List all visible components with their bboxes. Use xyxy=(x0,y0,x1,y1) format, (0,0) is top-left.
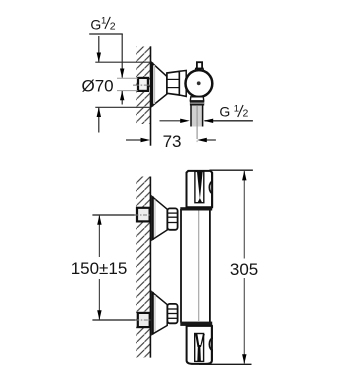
bottom handle (volume knob) xyxy=(187,326,212,364)
arrowhead up at bottom extension line xyxy=(97,107,101,117)
wall face line (front view) xyxy=(149,177,151,358)
gray center line through top square nut xyxy=(135,214,151,216)
gray center line through bottom square nut xyxy=(135,319,150,321)
escutcheon wide edge (thick) xyxy=(151,62,153,106)
outlet collar band highlight xyxy=(190,102,204,104)
svg-text:2: 2 xyxy=(110,21,116,33)
label G 1/2 (top) text xyxy=(90,16,115,33)
leader line down from underline xyxy=(121,34,123,78)
bottom in-wall square nut xyxy=(138,313,150,327)
svg-text:G: G xyxy=(219,104,230,120)
wall face line (top view) xyxy=(150,46,152,145)
outlet pipe right edge xyxy=(202,106,204,127)
stop button stem on top of body xyxy=(197,62,202,68)
thermostat body (circle, side view) xyxy=(186,70,213,97)
top handle groove wedge (filled V) xyxy=(197,172,203,199)
outlet pipe (shower hose connection) xyxy=(190,106,203,127)
top handle (temperature knob) xyxy=(187,171,213,207)
dim Ø70 upper arrow line xyxy=(98,36,100,62)
wall hatching (front view wall section) xyxy=(136,177,150,358)
union nut facet line 2 xyxy=(167,87,180,89)
lower arrow line of G1/2 top dim xyxy=(121,91,123,105)
body tube highlight line xyxy=(198,211,200,322)
body neck between nut and circle xyxy=(179,71,186,97)
ext line bottom of product (for dim 305) xyxy=(199,363,252,365)
top handle grip groove xyxy=(195,171,204,202)
arrowhead up at thread bottom xyxy=(120,91,124,101)
arrowhead left at pipe center xyxy=(197,138,207,142)
thermostat body tube xyxy=(180,209,210,323)
bottom handle groove V lines xyxy=(195,334,205,347)
stem base trapezoid xyxy=(195,68,204,71)
svg-text:Ø70: Ø70 xyxy=(82,77,114,96)
bottom handle groove stem bar xyxy=(197,346,201,362)
top handle groove foot triangle xyxy=(198,198,203,203)
outlet pipe left edge xyxy=(190,106,192,127)
bottom escutcheon wide edge (thick) xyxy=(151,292,153,335)
bottom handle right edge overdrawn xyxy=(211,326,213,361)
top union nut xyxy=(167,208,177,229)
arrowhead down at top extension line xyxy=(97,53,101,63)
top escutcheon highlight xyxy=(154,200,156,238)
escutcheon cone (side view) xyxy=(151,62,167,106)
thread extension line top (gray, for G1/2 top dim) xyxy=(117,77,138,79)
body tube left edge xyxy=(180,209,182,323)
top escutcheon wide edge (thick) xyxy=(151,196,153,240)
thread extension line bottom (gray, for G1/2 top dim) xyxy=(117,90,138,92)
top in-wall square nut xyxy=(137,208,150,222)
bottom union nut xyxy=(167,304,177,323)
union nut facet line 1 xyxy=(167,78,180,80)
dim 305 vertical line lower part xyxy=(243,278,245,364)
wall hatching (top view wall section) xyxy=(136,47,150,125)
ext/center line of top connection xyxy=(92,214,137,216)
extension line top of escutcheon (for dim Ø70) xyxy=(95,61,150,63)
svg-text:150±15: 150±15 xyxy=(71,259,128,278)
bottom escutcheon highlight xyxy=(154,295,156,332)
arrowhead right at pipe left edge xyxy=(180,119,190,123)
svg-text:1: 1 xyxy=(101,16,106,27)
arrowhead down at thread top xyxy=(120,69,124,79)
svg-text:73: 73 xyxy=(163,132,182,151)
arrowhead right at wall face xyxy=(141,138,151,142)
bottom escutcheon cone xyxy=(152,292,167,335)
top escutcheon cone xyxy=(152,196,167,240)
arrowhead down at bottom ext line xyxy=(242,354,246,364)
outlet collar dark band xyxy=(190,101,204,106)
dim 150±15 vertical line upper part xyxy=(98,216,100,257)
arrowhead up at top ext line xyxy=(242,171,246,181)
extension line bottom of escutcheon (for dim Ø70) xyxy=(95,106,150,108)
opposite arrow line pointing at pipe left edge xyxy=(160,120,182,122)
escutcheon highlight line xyxy=(154,65,156,104)
body center dot xyxy=(197,81,201,85)
dim Ø70 lower arrow line xyxy=(98,108,100,133)
arrowhead left at pipe right edge xyxy=(204,119,214,123)
arrowhead down at bottom connection line xyxy=(97,310,101,320)
top collar dark band xyxy=(180,207,212,210)
in-wall connection nut (square, behind wall) xyxy=(138,78,148,91)
bottom handle grip groove xyxy=(195,334,204,362)
svg-text:1: 1 xyxy=(234,103,239,114)
ext/center line of bottom connection xyxy=(92,319,137,321)
body tube right edge xyxy=(209,209,211,323)
bottom collar dark band xyxy=(180,322,212,326)
dim 73 left segment with arrow to wall face xyxy=(126,139,142,141)
dim 150±15 vertical line lower part xyxy=(98,279,100,319)
dim 305 vertical line upper part xyxy=(243,171,245,259)
union nut (side view) xyxy=(167,71,180,95)
arrowhead up at top connection line xyxy=(97,215,101,225)
bottom handle side button arc xyxy=(209,338,213,350)
top handle side button arc xyxy=(209,181,213,193)
ext line top of product (for dim 305) xyxy=(209,169,253,171)
supply center line through wall (dash-dot) xyxy=(133,84,150,86)
outlet collar trapezoid xyxy=(190,97,203,101)
top union nut groove lines xyxy=(168,212,177,214)
bottom union nut groove lines xyxy=(168,308,177,310)
svg-text:G: G xyxy=(90,17,101,33)
dim 73 right segment with arrow to pipe center xyxy=(206,139,216,141)
label G 1/2 (top) underline xyxy=(89,33,123,35)
top handle right edge overdrawn xyxy=(211,173,213,208)
svg-text:2: 2 xyxy=(243,108,249,120)
label G 1/2 (bottom) leader line xyxy=(205,120,253,122)
label G 1/2 (bottom right) text xyxy=(219,103,248,119)
svg-text:305: 305 xyxy=(230,260,258,279)
outlet pipe center line (fading) xyxy=(196,106,198,139)
